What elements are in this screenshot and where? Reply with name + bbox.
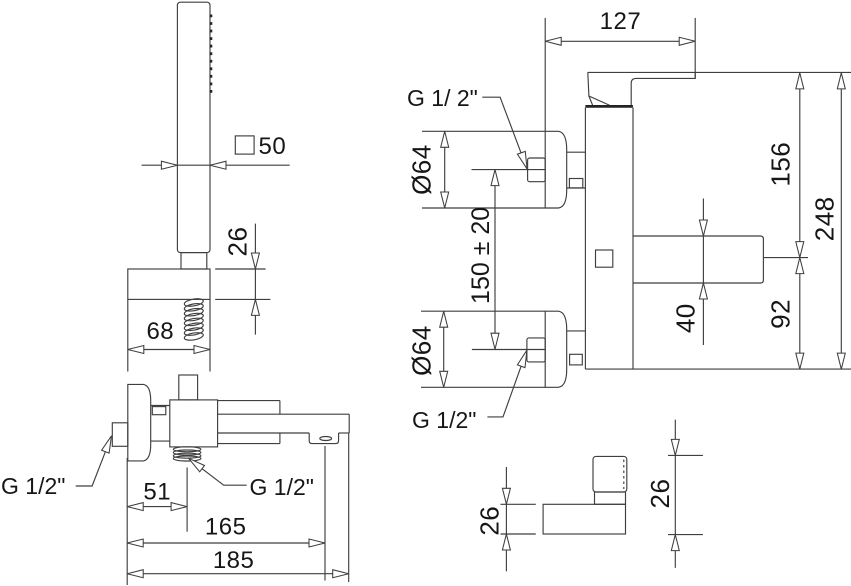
top view holder arm <box>543 504 625 534</box>
label G 1/2 left <box>1 473 65 499</box>
front view mixer body <box>585 108 633 370</box>
dimension 26 line and arrows (holder) <box>251 224 259 335</box>
front view lever handle <box>588 72 851 105</box>
dimension text 165 <box>205 514 247 541</box>
dimension text 26 (holder) <box>223 227 253 257</box>
lower union nut <box>527 338 545 362</box>
side view mixer body <box>170 400 218 447</box>
leader to lower union nut <box>487 350 527 417</box>
dimension text diameter 64 lower <box>407 325 437 376</box>
svg-text:150 ± 20: 150 ± 20 <box>467 207 495 304</box>
front view spout nub <box>633 236 763 283</box>
dimension 165 extension line <box>324 446 326 581</box>
svg-text:185: 185 <box>213 547 255 574</box>
dimension text 40 <box>671 303 701 333</box>
dimension 185 line and arrows <box>127 570 349 578</box>
bottom right dimension 26 right line and arrows <box>671 420 679 568</box>
left wall extension line <box>126 458 128 585</box>
shower hose coil spring <box>184 297 204 341</box>
svg-text:68: 68 <box>146 318 174 345</box>
side view spout mount block <box>218 401 280 444</box>
dimension text 51 <box>143 479 171 506</box>
side view small square detail <box>152 407 166 415</box>
svg-text:26: 26 <box>645 479 675 509</box>
dimension 150 line and arrows <box>491 170 499 350</box>
svg-text:Ø64: Ø64 <box>407 325 437 376</box>
bottom extension line <box>585 368 851 370</box>
dimension 185 extension line <box>348 433 350 582</box>
svg-text:G 1/ 2": G 1/ 2" <box>407 85 478 111</box>
dimension text 185 <box>213 547 255 574</box>
svg-text:248: 248 <box>810 196 840 241</box>
dimension 127 line and arrows <box>545 37 695 45</box>
svg-text:165: 165 <box>205 514 247 541</box>
upper connector piece <box>567 152 586 188</box>
top view nozzle dotted line <box>623 460 625 490</box>
label G 1/2 top <box>407 85 478 111</box>
hand shower handle body <box>177 2 210 252</box>
square symbol for 50 <box>235 136 254 154</box>
svg-text:26: 26 <box>223 227 253 257</box>
svg-text:26: 26 <box>475 506 505 536</box>
dimension 51 line and arrows <box>127 503 187 511</box>
wall holder side extension lines <box>128 299 210 371</box>
dimension 156 line and arrows <box>796 73 804 258</box>
dimension text 50 <box>259 133 287 160</box>
dimension 92 line and arrows <box>796 258 804 370</box>
dimension 26 extension lines (holder) <box>215 269 270 299</box>
dimension text diameter 64 upper <box>407 144 437 195</box>
svg-text:G 1/2": G 1/2" <box>250 474 314 500</box>
bottom right dimension text 26 left <box>475 506 505 536</box>
dimension 127 extension lines <box>545 18 695 131</box>
svg-text:G 1/2": G 1/2" <box>412 407 476 433</box>
side view aerator <box>320 437 332 441</box>
lower wall escutcheon front <box>545 311 567 387</box>
upper union diameter arrows <box>441 131 449 208</box>
upper wall escutcheon front <box>545 131 567 208</box>
front view cartridge cover plate <box>585 105 633 108</box>
bottom right dimension 26 left extension lines <box>501 504 536 534</box>
svg-text:50: 50 <box>259 133 287 160</box>
dimension 68 line and arrows <box>128 346 210 354</box>
upper union nut <box>528 158 546 182</box>
side view aerator housing <box>309 433 338 444</box>
side view connector piece <box>151 406 170 442</box>
upper union extension lines <box>422 131 545 208</box>
bottom right dimension 26 left line and arrows <box>502 467 510 571</box>
upper union center line <box>472 169 528 171</box>
svg-text:51: 51 <box>143 479 171 506</box>
dimension text 68 <box>146 318 174 345</box>
hand shower connector stub <box>181 253 207 269</box>
dimension text 127 <box>600 8 642 35</box>
label G 1/2 lower front <box>412 407 476 433</box>
lower connector piece <box>567 330 586 332</box>
svg-text:40: 40 <box>671 303 701 333</box>
lower union extension lines <box>421 311 545 387</box>
leader to wall union nut <box>76 436 112 486</box>
hand shower nozzle dots <box>210 15 213 93</box>
bottom right dimension 26 right extension lines <box>668 455 703 534</box>
side view wall escutcheon <box>128 384 151 461</box>
top view handle neck <box>595 492 626 504</box>
side view spout <box>218 414 350 433</box>
lower union diameter arrows <box>440 311 448 387</box>
leader to upper union nut <box>482 97 527 169</box>
bottom right dimension text 26 right <box>645 479 675 509</box>
dimension text 248 <box>810 196 840 241</box>
dimension 50 line and arrows <box>142 161 290 169</box>
dimension text 92 <box>766 299 796 329</box>
dimension 248 line and arrows <box>837 73 845 369</box>
side view shower hose thread <box>173 447 201 461</box>
label G 1/2 mid <box>250 474 314 500</box>
spout nub center line <box>763 257 808 259</box>
upper small square detail <box>569 179 582 188</box>
side view handle stem <box>179 375 198 400</box>
dimension 40 line and arrows <box>699 199 707 346</box>
svg-text:156: 156 <box>766 142 796 187</box>
leader to hose thread <box>189 458 247 485</box>
svg-text:92: 92 <box>766 299 796 329</box>
svg-text:Ø64: Ø64 <box>407 144 437 195</box>
top view shower head <box>593 456 627 492</box>
svg-text:127: 127 <box>600 8 642 35</box>
side view wall union nut <box>112 423 128 447</box>
lower union center line <box>472 349 527 351</box>
svg-text:G 1/2": G 1/2" <box>1 473 65 499</box>
front view diverter square <box>596 250 613 267</box>
wall holder bracket top band <box>128 269 210 299</box>
dimension text 150 plus minus 20 <box>467 207 495 304</box>
dimension 51 extension line <box>186 468 188 532</box>
dimension 165 line and arrows <box>127 539 325 547</box>
dimension text 156 <box>766 142 796 187</box>
lower small square detail <box>570 354 583 365</box>
